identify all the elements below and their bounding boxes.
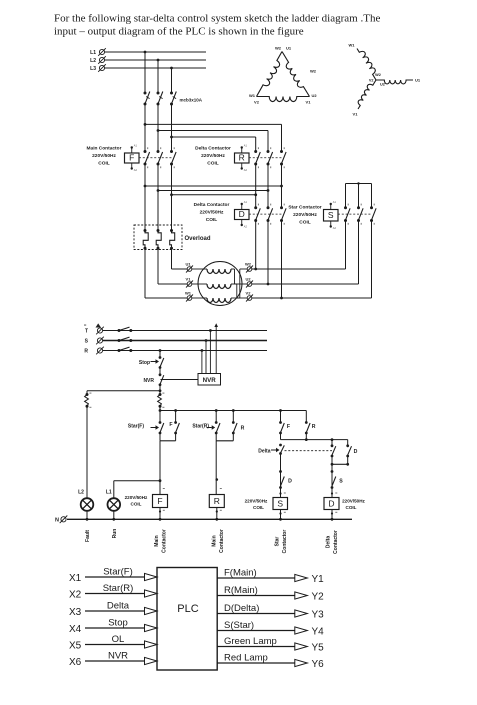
svg-text:Delta: Delta — [326, 536, 332, 548]
svg-text:A2: A2 — [134, 168, 138, 172]
svg-text:L2: L2 — [90, 58, 96, 64]
svg-text:X3: X3 — [69, 607, 82, 618]
svg-text:Stop: Stop — [108, 617, 128, 628]
svg-text:Contactor: Contactor — [219, 529, 225, 553]
svg-text:W1: W1 — [185, 291, 192, 296]
svg-text:S(Star): S(Star) — [224, 620, 254, 631]
svg-text:R: R — [214, 496, 220, 506]
svg-text:D: D — [239, 209, 245, 219]
svg-text:W2: W2 — [375, 73, 381, 77]
svg-text:R: R — [84, 349, 88, 355]
svg-text:R: R — [312, 424, 316, 430]
svg-text:V1: V1 — [186, 277, 192, 282]
svg-text:A2: A2 — [244, 225, 248, 229]
svg-text:U2: U2 — [380, 83, 385, 87]
svg-text:A2: A2 — [244, 168, 248, 172]
svg-text:F(Main): F(Main) — [224, 567, 257, 578]
svg-text:COIL: COIL — [206, 217, 218, 223]
svg-text:220V/50Hz: 220V/50Hz — [200, 210, 224, 216]
svg-text:V1: V1 — [306, 100, 312, 105]
svg-text:R: R — [239, 153, 245, 163]
svg-text:Y5: Y5 — [312, 642, 325, 653]
svg-text:X5: X5 — [69, 640, 82, 651]
svg-text:Y6: Y6 — [312, 659, 325, 670]
svg-text:input – output diagram of the: input – output diagram of the PLC is sho… — [54, 26, 304, 38]
svg-text:Y2: Y2 — [312, 591, 325, 602]
svg-text:W2: W2 — [245, 262, 252, 267]
svg-text:Red Lamp: Red Lamp — [224, 652, 268, 663]
svg-text:W2: W2 — [310, 69, 317, 74]
svg-text:220V/50Hz: 220V/50Hz — [293, 212, 317, 218]
svg-text:COIL: COIL — [253, 505, 264, 510]
svg-text:Star(F): Star(F) — [128, 424, 144, 430]
svg-text:Delta: Delta — [258, 449, 270, 455]
svg-text:X6: X6 — [69, 657, 82, 668]
svg-text:COIL: COIL — [131, 502, 142, 507]
svg-text:Y1: Y1 — [312, 574, 325, 585]
svg-text:Contactor: Contactor — [333, 530, 339, 554]
svg-text:X1: X1 — [69, 573, 82, 584]
svg-text:COIL: COIL — [346, 505, 357, 510]
svg-text:X2: X2 — [69, 589, 82, 600]
svg-text:W1: W1 — [349, 43, 356, 48]
svg-text:W1: W1 — [249, 93, 256, 98]
svg-text:NVR: NVR — [143, 378, 154, 384]
svg-text:Main: Main — [154, 535, 160, 546]
svg-text:Star(R): Star(R) — [192, 424, 209, 430]
svg-text:R(Main): R(Main) — [224, 585, 258, 596]
svg-text:U1: U1 — [286, 46, 292, 51]
svg-text:D(Delta): D(Delta) — [224, 603, 259, 614]
svg-text:A1: A1 — [333, 200, 337, 204]
svg-text:V2: V2 — [246, 291, 252, 296]
svg-text:Contactor: Contactor — [282, 530, 288, 554]
svg-text:Star(F): Star(F) — [103, 566, 133, 577]
svg-text:Contactor: Contactor — [162, 529, 168, 553]
svg-text:Delta Contactor: Delta Contactor — [195, 146, 231, 152]
svg-text:220V/50Hz: 220V/50Hz — [201, 153, 225, 159]
svg-text:mcb3x10A: mcb3x10A — [180, 98, 203, 103]
svg-text:A1: A1 — [134, 144, 138, 148]
svg-text:NVR: NVR — [108, 650, 128, 661]
svg-text:V2: V2 — [254, 100, 260, 105]
svg-text:220V/50Hz: 220V/50Hz — [342, 499, 365, 504]
svg-text:220V/50Hz: 220V/50Hz — [92, 153, 116, 159]
svg-text:W2: W2 — [275, 46, 282, 51]
svg-text:COIL: COIL — [98, 161, 110, 167]
svg-text:A2: A2 — [333, 226, 337, 230]
svg-text:Main Contactor: Main Contactor — [87, 146, 122, 152]
svg-text:S: S — [277, 498, 283, 508]
svg-text:Stop: Stop — [139, 360, 150, 366]
svg-text:PLC: PLC — [177, 603, 198, 615]
svg-text:U1: U1 — [415, 78, 421, 83]
svg-text:F: F — [129, 153, 134, 163]
svg-text:Delta: Delta — [107, 600, 130, 611]
svg-text:L3: L3 — [90, 66, 96, 72]
svg-text:L1: L1 — [106, 490, 112, 496]
svg-text:220V/50Hz: 220V/50Hz — [125, 495, 148, 500]
svg-text:V1: V1 — [353, 112, 359, 117]
svg-text:X4: X4 — [69, 624, 82, 635]
svg-text:Y4: Y4 — [312, 626, 325, 637]
svg-text:F: F — [169, 422, 172, 428]
svg-text:OL: OL — [112, 634, 125, 645]
svg-text:D: D — [354, 449, 358, 455]
svg-text:D: D — [328, 498, 334, 508]
svg-text:Delta Contactor: Delta Contactor — [194, 202, 230, 208]
svg-text:Green Lamp: Green Lamp — [224, 636, 277, 647]
svg-text:COIL: COIL — [299, 220, 311, 226]
svg-text:N: N — [55, 518, 59, 524]
svg-text:Y3: Y3 — [312, 609, 325, 620]
svg-text:S: S — [339, 479, 343, 485]
svg-text:COIL: COIL — [207, 161, 219, 167]
svg-text:Main: Main — [212, 535, 218, 546]
svg-text:R: R — [241, 426, 245, 432]
svg-text:A1: A1 — [244, 144, 248, 148]
svg-text:Fault: Fault — [85, 530, 91, 542]
svg-text:D: D — [288, 479, 292, 485]
svg-text:NVR: NVR — [203, 377, 217, 384]
svg-text:U2: U2 — [312, 93, 318, 98]
svg-text:U2: U2 — [245, 277, 251, 282]
svg-text:Star Contactor: Star Contactor — [288, 205, 321, 211]
svg-text:F: F — [287, 424, 290, 430]
svg-text:Overload: Overload — [185, 236, 211, 242]
svg-text:F: F — [157, 496, 162, 506]
svg-text:U1: U1 — [185, 262, 191, 267]
svg-text:Run: Run — [112, 529, 118, 539]
svg-text:S: S — [328, 210, 334, 220]
svg-text:T: T — [85, 329, 88, 335]
svg-text:Star: Star — [275, 537, 281, 547]
svg-text:L2: L2 — [78, 490, 84, 496]
svg-text:220V/50Hz: 220V/50Hz — [245, 499, 268, 504]
svg-text:Star(R): Star(R) — [103, 583, 134, 594]
svg-text:L1: L1 — [90, 50, 96, 56]
svg-text:A1: A1 — [244, 200, 248, 204]
svg-text:For the following star-delta c: For the following star-delta control sys… — [54, 13, 380, 25]
svg-text:V2: V2 — [369, 79, 374, 83]
